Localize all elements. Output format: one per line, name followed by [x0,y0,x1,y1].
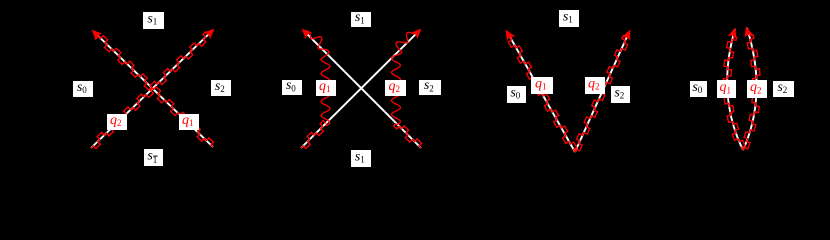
panel 3 red square-wave decoration left branch [508,35,577,152]
panel 1 red square-wave decoration on up-left line [95,36,213,147]
panel 1 label q2 (red) [107,113,127,130]
panel 3 red square-wave decoration right branch [575,36,628,152]
panel 4 arrowhead right [741,25,753,38]
panel 1 arrowhead top-right [203,25,217,39]
panel 1 label s1 top [143,12,164,30]
panel 2 label s1 bottom [351,150,371,168]
panel 4 label q2 (red) [747,80,767,98]
panel 1 label s2 right [211,79,231,96]
panel 4 wire: lens left curve [727,29,743,150]
panel 3 label q1 (red) [531,77,553,95]
panel 3 wire: V left branch [507,32,575,152]
panel 1 arrowhead top-left [88,26,102,40]
panel 1 red square-wave decoration on up-right line [91,32,208,149]
panel 3 wire: V right branch [575,32,629,152]
panel 2 arrowhead top-left [298,25,312,39]
panel 2 red zigzag on bottom-right line end [394,123,422,148]
panel 1 label q1 (red) [179,113,199,130]
panel 2 arrowhead top-right [410,25,424,39]
panel 3 arrowhead top-left [502,27,515,41]
panel 2 red zigzag on bottom-left line end [301,121,326,149]
panel 3 label s1 top [559,10,579,28]
panel 2 wire: line bottom-left to top-right [301,31,419,149]
panel 4 red square-wave decoration right curve [743,35,760,150]
panel 1 wire: line from bottom-right to top-left arrow [94,32,213,148]
panel 2 red sine connector right (q2 trajectory) [392,32,418,126]
panel 2 label q2 (red) [385,79,406,96]
panel 4 label s0 [690,80,707,97]
panel 1 wire: line from bottom-left to top-right arrow [91,31,212,149]
panel 1 label s1bar bottom [144,149,163,167]
panel 3 label s0 left [507,86,526,104]
panel 1 label s0 left [73,80,93,97]
panel 3 label q2 (red) [585,77,605,95]
panel 3 label s2 right [611,86,630,104]
panel 4 label s2 [773,80,794,97]
panel 2 label s1 top [351,10,371,27]
panel 2 red sine connector left (q1 trajectory) [305,31,330,126]
panel 2 label q1 (red) [316,79,336,96]
panel 2 wire: line bottom-right to top-left [304,31,421,148]
panel 4 arrowhead left [728,26,740,39]
panel 4 wire: lens right curve [743,28,757,150]
panel 3 arrowhead top-right [622,28,635,42]
panel 4 label q1 (red) [717,80,736,98]
panel 2 label s2 right [419,78,441,95]
panel 4 red square-wave decoration left curve [723,37,745,150]
panel 2 label s0 left [282,78,302,95]
